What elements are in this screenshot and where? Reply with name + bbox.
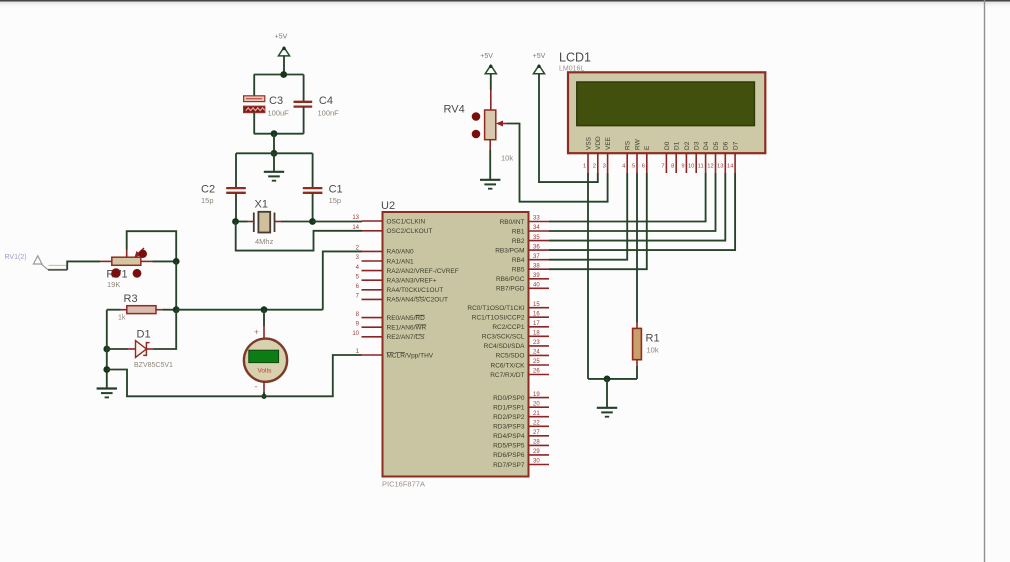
- svg-text:RV1(2): RV1(2): [5, 254, 27, 261]
- chip U2 body: [383, 212, 529, 477]
- U2 left pins with numbers and labels: [352, 215, 458, 359]
- wire R3 right lead: [162, 309, 176, 311]
- svg-text:R1: R1: [646, 333, 660, 345]
- value D1 BZV85C5V1: [134, 362, 173, 369]
- svg-text:37: 37: [533, 254, 540, 260]
- wire left ground rail: [106, 310, 108, 388]
- RV1 adjust dot right: [133, 269, 142, 278]
- svg-text:RA2/AN2/VREF-/CVREF: RA2/AN2/VREF-/CVREF: [387, 268, 459, 275]
- wire ground stem (R1): [606, 379, 608, 407]
- display LCD1 body: [568, 72, 765, 153]
- potentiometer RV1: [100, 248, 153, 265]
- svg-text:D5: D5: [713, 141, 720, 150]
- svg-text:E: E: [644, 145, 651, 150]
- node R3 right junction: [173, 306, 180, 313]
- svg-text:RW: RW: [634, 138, 641, 150]
- wire C2 bottom lead: [235, 193, 237, 222]
- svg-text:MCLR/Vpp/THV: MCLR/Vpp/THV: [387, 352, 434, 359]
- svg-text:13: 13: [717, 163, 723, 169]
- svg-text:15p: 15p: [329, 196, 342, 205]
- wire RB2 to LCD D6: [549, 173, 725, 241]
- svg-text:19: 19: [533, 392, 540, 398]
- wire R1 bottom lead: [636, 366, 638, 379]
- label C1: [329, 184, 343, 196]
- ground (R1/VSS): [597, 408, 617, 417]
- wire RA0 pin 2 to divider: [323, 251, 362, 309]
- wire D1 cathode up to node: [154, 310, 177, 349]
- svg-text:D3: D3: [694, 141, 701, 150]
- capacitor C4: [294, 102, 313, 107]
- svg-text:13: 13: [352, 215, 359, 221]
- svg-text:RB5: RB5: [512, 267, 525, 274]
- label LCD1: [559, 51, 591, 65]
- svg-text:10k: 10k: [501, 154, 513, 163]
- label R3: [124, 293, 138, 305]
- svg-text:5: 5: [632, 163, 635, 169]
- wire voltmeter bottom lead: [263, 382, 265, 397]
- svg-text:RC2/CCP1: RC2/CCP1: [492, 324, 525, 331]
- power +5V arrow (top): [278, 47, 289, 56]
- svg-text:RC6/TX/CK: RC6/TX/CK: [491, 362, 526, 369]
- label RV1: [106, 269, 127, 281]
- wire probe to RV1: [67, 261, 100, 269]
- svg-text:15: 15: [533, 302, 540, 308]
- svg-text:39: 39: [533, 273, 540, 279]
- display LCD1 screen: [577, 82, 755, 126]
- frame top shading: [0, 2, 1010, 9]
- svg-text:6: 6: [356, 284, 360, 290]
- svg-text:22: 22: [533, 421, 540, 427]
- svg-text:RD2/PSP2: RD2/PSP2: [493, 414, 525, 421]
- svg-text:D2: D2: [684, 141, 691, 150]
- label C2: [201, 184, 215, 196]
- wire RB0 to LCD D4: [549, 173, 706, 222]
- svg-text:8: 8: [356, 312, 360, 318]
- wire RV1 right terminal: [153, 260, 177, 262]
- wire MCLR return loop: [107, 355, 362, 396]
- svg-text:15p: 15p: [201, 196, 214, 205]
- svg-text:C3: C3: [269, 95, 283, 107]
- svg-text:RE1/AN6/WR: RE1/AN6/WR: [387, 325, 427, 332]
- svg-text:14: 14: [352, 225, 359, 231]
- diode D1 (zener): [128, 341, 154, 358]
- node D1 anode junction: [103, 346, 110, 353]
- svg-text:12: 12: [707, 163, 713, 169]
- svg-text:RB3/PGM: RB3/PGM: [495, 247, 524, 254]
- wire RB5 to LCD E: [549, 173, 647, 269]
- value C4 100nF: [318, 109, 340, 118]
- svg-text:RV4: RV4: [444, 104, 465, 116]
- svg-text:14: 14: [727, 163, 734, 169]
- svg-text:26: 26: [533, 369, 540, 375]
- frame top edge: [0, 0, 1010, 2]
- svg-text:RE0/AN5/RD: RE0/AN5/RD: [387, 315, 426, 322]
- node voltmeter return junction: [261, 394, 266, 399]
- svg-text:RS: RS: [625, 140, 632, 150]
- svg-text:20: 20: [533, 401, 540, 407]
- power +5V arrow (RV4): [485, 65, 496, 74]
- svg-text:23: 23: [533, 340, 540, 346]
- svg-text:6: 6: [642, 163, 645, 169]
- svg-text:RC0/T1OSO/T1CKI: RC0/T1OSO/T1CKI: [467, 305, 524, 312]
- wire VSS/R1 ground link: [588, 378, 637, 380]
- capacitor C3: [244, 96, 265, 113]
- svg-text:3: 3: [603, 163, 606, 169]
- svg-text:+5V: +5V: [480, 53, 493, 60]
- svg-text:100uF: 100uF: [268, 109, 290, 118]
- wire C2 top lead: [235, 153, 237, 187]
- wire RB1 to LCD D5: [549, 173, 716, 231]
- svg-text:RB1: RB1: [512, 228, 525, 235]
- svg-text:21: 21: [533, 411, 540, 417]
- svg-text:RA4/T0CKI/C1OUT: RA4/T0CKI/C1OUT: [387, 287, 444, 294]
- power +5V arrow (VDD): [533, 65, 544, 74]
- svg-text:RC3/SCK/SCL: RC3/SCK/SCL: [482, 334, 525, 341]
- svg-text:D4: D4: [703, 141, 710, 150]
- svg-text:10k: 10k: [647, 346, 659, 355]
- wire C1 top lead: [312, 153, 314, 187]
- svg-text:RC1/T1OSI/CCP2: RC1/T1OSI/CCP2: [472, 315, 525, 322]
- svg-text:OSC1/CLKIN: OSC1/CLKIN: [387, 218, 426, 225]
- label X1: [255, 199, 268, 211]
- voltmeter minus sign: [255, 382, 258, 392]
- wire RB3 to LCD D7: [549, 173, 735, 250]
- value C2 15p: [201, 196, 214, 205]
- svg-text:RD1/PSP1: RD1/PSP1: [493, 405, 525, 412]
- svg-text:RA3/AN3/VREF+: RA3/AN3/VREF+: [387, 278, 437, 285]
- svg-text:C2: C2: [201, 184, 215, 196]
- value R1 10k: [647, 346, 659, 355]
- svg-text:C1: C1: [329, 184, 343, 196]
- wire RV1 junction down to R3: [175, 261, 177, 309]
- svg-text:33: 33: [533, 216, 540, 222]
- node bottom rail junction: [271, 130, 278, 137]
- node X1 left junction: [232, 218, 239, 225]
- wire C4 top lead: [303, 75, 305, 102]
- label C4: [319, 95, 333, 107]
- svg-text:27: 27: [533, 430, 540, 436]
- wire C1 bottom lead: [312, 193, 314, 222]
- svg-text:RD0/PSP0: RD0/PSP0: [493, 395, 525, 402]
- svg-text:9: 9: [681, 163, 684, 169]
- resistor R3: [121, 306, 163, 314]
- svg-text:+5V: +5V: [533, 53, 546, 60]
- wire rail to crystal rail: [273, 134, 275, 154]
- svg-text:29: 29: [533, 449, 540, 455]
- ground (RV4): [480, 180, 500, 189]
- crystal X1: [236, 212, 313, 233]
- wire C3/C4 top rail: [254, 74, 304, 76]
- svg-text:36: 36: [533, 244, 540, 250]
- RV1 adjust dot left: [111, 268, 120, 277]
- svg-text:10: 10: [688, 163, 694, 169]
- svg-text:RB4: RB4: [512, 257, 525, 264]
- wire LCD VSS down: [587, 173, 589, 379]
- svg-text:17: 17: [533, 321, 540, 327]
- wire RV1 wiper loop: [127, 231, 177, 261]
- svg-text:10: 10: [352, 331, 359, 337]
- svg-text:D1: D1: [674, 141, 681, 150]
- svg-text:2: 2: [593, 163, 596, 169]
- svg-text:-: -: [255, 382, 258, 392]
- wire C3 top lead: [253, 75, 255, 97]
- node top rail junction: [280, 71, 287, 78]
- power +5V label (RV4): [480, 53, 493, 60]
- svg-text:X1: X1: [255, 199, 268, 211]
- svg-text:4: 4: [356, 265, 360, 271]
- svg-text:19K: 19K: [107, 280, 120, 289]
- value X1 4Mhz: [255, 237, 274, 246]
- svg-text:4Mhz: 4Mhz: [255, 237, 274, 246]
- svg-text:1k: 1k: [118, 315, 126, 322]
- capacitor C2: [226, 188, 246, 193]
- ground (crystal rail): [264, 172, 284, 181]
- svg-text:34: 34: [533, 225, 540, 231]
- power +5V label (VDD): [533, 53, 546, 60]
- svg-text:+5V: +5V: [275, 34, 288, 41]
- svg-text:D1: D1: [137, 329, 151, 341]
- value RV4 10k: [501, 154, 513, 163]
- svg-text:RB0/INT: RB0/INT: [500, 219, 525, 226]
- wire RB4 to LCD RS: [549, 173, 627, 260]
- svg-text:40: 40: [533, 283, 540, 289]
- wire +5V stem to top rail: [283, 56, 285, 75]
- svg-text:RC4/SDI/SDA: RC4/SDI/SDA: [484, 343, 525, 350]
- label RV1(2) net: [5, 254, 27, 261]
- power +5V label (top): [275, 34, 288, 41]
- node crystal rail junction: [271, 150, 278, 157]
- svg-text:LCD1: LCD1: [559, 51, 591, 65]
- node ground junction: [604, 376, 611, 383]
- svg-text:RC5/SDO: RC5/SDO: [496, 353, 525, 360]
- svg-text:RA5/AN4/SS/C2OUT: RA5/AN4/SS/C2OUT: [387, 297, 448, 304]
- value C3 100uF: [268, 109, 290, 118]
- voltmeter plus sign: [254, 328, 259, 337]
- svg-text:RD7/PSP7: RD7/PSP7: [493, 462, 525, 469]
- svg-text:RE2/AN7/CS: RE2/AN7/CS: [387, 334, 426, 341]
- svg-text:RC7/RX/DT: RC7/RX/DT: [490, 372, 524, 379]
- potentiometer RV4: [472, 110, 503, 140]
- value C1 15p: [329, 196, 342, 205]
- node X1 right junction: [309, 218, 316, 225]
- svg-text:BZV85C5V1: BZV85C5V1: [134, 362, 173, 369]
- svg-text:RD6/PSP6: RD6/PSP6: [493, 452, 525, 459]
- voltmeter (Volts): [244, 339, 287, 382]
- svg-text:4: 4: [622, 163, 626, 169]
- value RV1 19K: [107, 280, 120, 289]
- svg-text:VSS: VSS: [585, 136, 592, 150]
- wire ground stem (crystal): [273, 153, 275, 171]
- U2 right pins with numbers and labels: [467, 216, 549, 469]
- svg-text:7: 7: [661, 163, 664, 169]
- node RV1 output junction: [173, 258, 180, 265]
- svg-text:RD3/PSP3: RD3/PSP3: [493, 424, 525, 431]
- svg-text:18: 18: [533, 331, 540, 337]
- svg-text:VEE: VEE: [605, 136, 612, 150]
- svg-text:R3: R3: [124, 293, 138, 305]
- frame right edge: [984, 0, 986, 562]
- wire C4 bottom lead: [303, 107, 305, 134]
- svg-text:RD4/PSP4: RD4/PSP4: [493, 433, 525, 440]
- wire C3 bottom lead: [253, 113, 255, 134]
- svg-text:7: 7: [356, 294, 360, 300]
- wire C3/C4 bottom rail: [254, 133, 304, 135]
- wire R3 left lead corner: [107, 309, 121, 311]
- svg-text:9: 9: [356, 321, 360, 327]
- svg-text:D7: D7: [733, 141, 740, 150]
- svg-text:RB2: RB2: [512, 238, 525, 245]
- LCD1 pin stubs, numbers and labels: [583, 136, 740, 173]
- wire LCD RW down to R1: [636, 173, 638, 323]
- svg-text:100nF: 100nF: [318, 109, 340, 118]
- svg-text:RB6/PGC: RB6/PGC: [496, 276, 525, 283]
- node meter return junction: [103, 366, 110, 373]
- node voltmeter tap junction: [261, 306, 268, 313]
- svg-text:24: 24: [533, 350, 540, 356]
- svg-text:OSC2/CLKOUT: OSC2/CLKOUT: [387, 228, 433, 235]
- svg-text:RA1/AN1: RA1/AN1: [387, 258, 414, 265]
- svg-text:28: 28: [533, 440, 540, 446]
- svg-text:D6: D6: [723, 141, 730, 150]
- svg-text:U2: U2: [381, 200, 395, 212]
- value U2 PIC16F877A: [382, 480, 425, 489]
- svg-text:+: +: [254, 328, 259, 337]
- svg-text:RB7/PGD: RB7/PGD: [496, 286, 525, 293]
- wire RV4 bottom to ground: [489, 140, 491, 179]
- wire RV4 wiper to LCD VEE: [503, 124, 608, 202]
- svg-text:Volts: Volts: [257, 367, 272, 374]
- wire OSC1 to pin 13: [313, 221, 363, 223]
- svg-text:8: 8: [671, 163, 674, 169]
- svg-text:VDD: VDD: [595, 136, 602, 150]
- value LCD1 LM016L: [559, 66, 584, 73]
- svg-text:5: 5: [356, 274, 360, 280]
- ground (left rail): [97, 389, 117, 398]
- wire divider node to RA0: [176, 309, 323, 311]
- label C3: [269, 95, 283, 107]
- svg-text:38: 38: [533, 263, 540, 269]
- svg-text:C4: C4: [319, 95, 333, 107]
- label D1: [137, 329, 151, 341]
- svg-text:11: 11: [698, 163, 704, 169]
- probe symbol: [33, 256, 67, 270]
- wire +5V to LCD VDD: [539, 74, 598, 182]
- value R3 1k: [118, 315, 126, 322]
- svg-text:16: 16: [533, 311, 540, 317]
- wire D1 anode lead: [107, 348, 128, 350]
- svg-text:RA0/AN0: RA0/AN0: [387, 249, 414, 256]
- svg-text:PIC16F877A: PIC16F877A: [382, 480, 425, 489]
- wire +5V to RV4: [490, 74, 492, 110]
- resistor R1: [633, 323, 642, 367]
- label R1: [646, 333, 660, 345]
- svg-text:3: 3: [356, 255, 360, 261]
- label U2: [381, 200, 395, 212]
- capacitor C1: [303, 188, 323, 193]
- label RV4: [444, 104, 465, 116]
- wire crystal top rail: [236, 152, 313, 154]
- svg-text:35: 35: [533, 235, 540, 241]
- svg-text:1: 1: [583, 163, 586, 169]
- svg-text:25: 25: [533, 359, 540, 365]
- wire OSC2 loop to pin 14: [236, 222, 362, 251]
- svg-text:RD5/PSP5: RD5/PSP5: [493, 443, 525, 450]
- wire voltmeter top lead: [263, 310, 265, 340]
- svg-text:30: 30: [533, 459, 540, 465]
- svg-text:D0: D0: [664, 141, 671, 150]
